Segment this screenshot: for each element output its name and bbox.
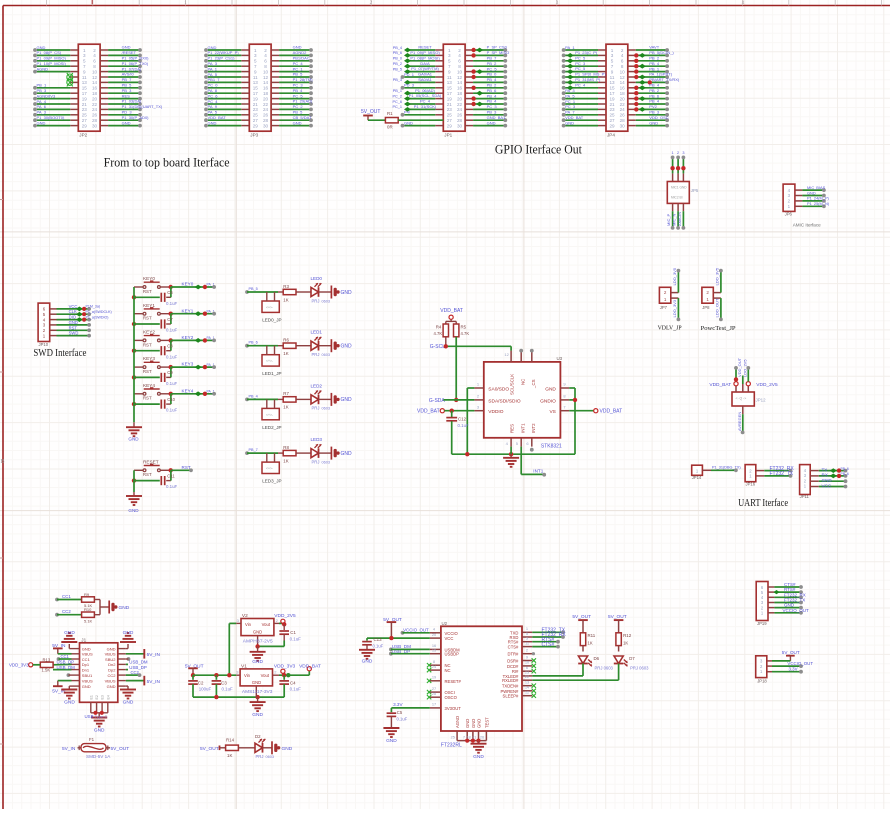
svg-text:DSR#: DSR#	[507, 659, 519, 664]
svg-text:11: 11	[447, 75, 452, 80]
svg-text:27: 27	[447, 118, 453, 123]
svg-text:P1_06(P_TX0): P1_06(P_TX0)	[122, 61, 149, 66]
svg-text:NC: NC	[445, 668, 451, 673]
svg-text:VDD_BAT: VDD_BAT	[565, 115, 584, 120]
svg-text:<+>-: <+>-	[266, 359, 273, 363]
svg-text:15: 15	[609, 86, 615, 91]
svg-text:PC_3: PC_3	[293, 83, 304, 88]
svg-text:JP10: JP10	[39, 342, 49, 347]
svg-text:GND: GND	[341, 451, 353, 457]
svg-text:PRJ: PRJ	[312, 459, 320, 464]
svg-text:7: 7	[611, 64, 614, 69]
svg-text:GND: GND	[253, 629, 262, 634]
svg-text:GND: GND	[64, 630, 75, 636]
svg-text:RX: RX	[822, 473, 828, 478]
svg-text:GND: GND	[122, 45, 131, 50]
svg-text:DCD#: DCD#	[507, 664, 519, 669]
svg-text:C2: C2	[198, 680, 204, 685]
svg-text:VDD_OUT: VDD_OUT	[737, 357, 742, 377]
svg-text:DIO: DIO	[69, 315, 77, 320]
svg-text:P1_08(P_MOSI): P1_08(P_MOSI)	[410, 55, 440, 60]
svg-text:GND: GND	[341, 290, 353, 296]
svg-text:KEY0: KEY0	[143, 276, 155, 281]
svg-text:RST: RST	[143, 369, 152, 374]
svg-text:1K: 1K	[227, 753, 232, 758]
svg-text:R13: R13	[43, 658, 51, 663]
svg-text:4.7K: 4.7K	[461, 331, 470, 336]
svg-text:1K: 1K	[283, 405, 288, 410]
svg-text:NC: NC	[521, 379, 526, 385]
svg-text:LED2: LED2	[311, 383, 323, 388]
svg-text:P1_09(P_MISO): P1_09(P_MISO)	[37, 56, 67, 61]
svg-text:C10: C10	[167, 397, 175, 402]
svg-text:5V_IN: 5V_IN	[147, 679, 161, 685]
svg-text:8: 8	[264, 64, 267, 69]
svg-text:JP2: JP2	[79, 133, 87, 138]
svg-text:5V_OUT: 5V_OUT	[572, 614, 591, 620]
svg-text:1.5K: 1.5K	[42, 668, 51, 673]
svg-text:SMD-5V 1A: SMD-5V 1A	[86, 754, 111, 759]
svg-text:R5: R5	[461, 324, 467, 329]
svg-text:R12: R12	[623, 633, 632, 638]
svg-text:PA_5: PA_5	[208, 72, 218, 77]
svg-text:P1_05(P_RX0): P1_05(P_RX0)	[122, 56, 150, 61]
svg-text:P1_24(M_P): P1_24(M_P)	[807, 196, 830, 201]
svg-text:PC_5: PC_5	[293, 93, 304, 98]
svg-text:PC_5: PC_5	[575, 55, 586, 60]
svg-text:RST: RST	[143, 289, 152, 294]
svg-text:3.3V: 3.3V	[393, 702, 403, 707]
svg-text:16: 16	[92, 86, 98, 91]
svg-text:5V_OUT: 5V_OUT	[361, 109, 380, 115]
svg-text:0.1uF: 0.1uF	[166, 381, 178, 386]
svg-text:PA_3: PA_3	[208, 61, 218, 66]
svg-text:PB_2: PB_2	[487, 83, 498, 88]
svg-text:E3: E3	[101, 695, 105, 699]
svg-text:PB_4: PB_4	[487, 99, 498, 104]
svg-text:PB_3: PB_3	[393, 78, 402, 82]
svg-text:VCC: VCC	[445, 636, 454, 641]
svg-text:PB_3: PB_3	[649, 110, 660, 115]
svg-text:INT2: INT2	[531, 423, 536, 433]
svg-text:0603: 0603	[322, 299, 330, 303]
svg-text:GND: GND	[341, 344, 353, 350]
svg-text:29: 29	[82, 123, 88, 128]
svg-text:5V_OUT: 5V_OUT	[111, 746, 130, 752]
svg-text:GND: GND	[122, 120, 131, 125]
svg-text:JP12: JP12	[756, 398, 767, 403]
svg-text:VCCIO: VCCIO	[445, 631, 459, 636]
svg-text:25: 25	[609, 113, 615, 118]
svg-text:CC2: CC2	[62, 609, 71, 614]
svg-text:C12: C12	[458, 417, 467, 422]
svg-text:25: 25	[447, 113, 453, 118]
svg-text:GND: GND	[94, 728, 105, 734]
svg-text:26: 26	[620, 113, 626, 118]
svg-text:VAVT: VAVT	[649, 45, 659, 50]
svg-text:PB_1: PB_1	[649, 66, 660, 71]
svg-text:RES: RES	[510, 424, 515, 433]
svg-text:R7: R7	[283, 391, 289, 396]
svg-text:15: 15	[432, 648, 436, 653]
svg-text:GND: GND	[473, 754, 484, 760]
svg-text:PA_3: PA_3	[565, 88, 575, 93]
svg-text:C3: C3	[221, 680, 227, 685]
svg-text:11: 11	[253, 75, 258, 80]
svg-text:VDD_OSC: VDD_OSC	[649, 115, 668, 120]
svg-text:R8: R8	[283, 445, 289, 450]
svg-text:9: 9	[254, 69, 257, 74]
svg-text:P1M_3a): P1M_3a)	[86, 305, 101, 309]
svg-text:VBUS: VBUS	[105, 678, 116, 683]
svg-text:F1: F1	[89, 737, 95, 742]
svg-text:1: 1	[83, 48, 86, 53]
svg-text:R3: R3	[283, 284, 289, 289]
svg-text:VDDIO: VDDIO	[488, 409, 503, 415]
svg-text:GND: GND	[128, 437, 139, 442]
svg-text:3V3OUT: 3V3OUT	[445, 706, 462, 711]
svg-text:JP3: JP3	[250, 133, 258, 138]
svg-text:VDD_2V5: VDD_2V5	[756, 382, 778, 388]
svg-text:P1_03(DA): P1_03(DA)	[122, 99, 142, 104]
svg-text:PRJ: PRJ	[312, 298, 320, 303]
svg-text:Dp2: Dp2	[108, 667, 116, 672]
svg-text:13: 13	[253, 80, 259, 85]
svg-text:C6: C6	[167, 290, 173, 295]
svg-text:FT232_TX: FT232_TX	[770, 471, 794, 477]
svg-text:20: 20	[92, 96, 98, 101]
svg-text:4: 4	[621, 53, 624, 58]
svg-text:AVS/I0: AVS/I0	[122, 72, 135, 77]
svg-text:PB_5: PB_5	[249, 287, 258, 291]
svg-text:15: 15	[253, 86, 259, 91]
svg-text:LED1_JP: LED1_JP	[262, 371, 281, 376]
svg-text:18: 18	[263, 91, 269, 96]
svg-text:E1: E1	[89, 695, 93, 699]
svg-text:PA_1: PA_1	[565, 45, 575, 50]
svg-text:19: 19	[253, 96, 259, 101]
svg-text:22: 22	[92, 102, 98, 107]
svg-text:GND: GND	[82, 684, 91, 689]
svg-text:17: 17	[447, 91, 453, 96]
svg-text:CC1: CC1	[62, 594, 71, 599]
svg-text:P4/: P4/	[404, 110, 411, 115]
svg-text:SBU1: SBU1	[82, 673, 93, 678]
svg-text:13: 13	[82, 80, 88, 85]
svg-text:G-SCL: G-SCL	[430, 344, 446, 350]
svg-text:VDD_BAT: VDD_BAT	[600, 409, 623, 415]
svg-text:2: 2	[370, 0, 373, 6]
svg-text:E4: E4	[106, 695, 110, 699]
svg-text:SLEEP#: SLEEP#	[503, 694, 520, 699]
svg-text:PRJ: PRJ	[256, 754, 264, 759]
svg-text:C5: C5	[397, 710, 403, 715]
svg-text:5V_OUT: 5V_OUT	[782, 650, 800, 655]
svg-text:V1: V1	[241, 663, 247, 669]
svg-text:28: 28	[432, 691, 436, 696]
svg-text:GND: GND	[208, 45, 217, 50]
svg-text:TEST: TEST	[484, 717, 489, 728]
svg-text:GND: GND	[37, 120, 46, 125]
svg-text:LED0: LED0	[311, 276, 323, 281]
svg-text:SWD Interface: SWD Interface	[33, 348, 86, 359]
svg-text:PB_6: PB_6	[393, 51, 402, 55]
svg-text:INT1: INT1	[521, 423, 526, 433]
svg-text:10: 10	[457, 69, 463, 74]
svg-text:/RESET: /RESET	[122, 50, 137, 55]
svg-text:GND: GND	[293, 45, 302, 50]
svg-text:PB_7: PB_7	[487, 56, 498, 61]
svg-text:7: 7	[83, 64, 86, 69]
svg-text:PB_4: PB_4	[293, 88, 304, 93]
svg-text:20: 20	[620, 96, 626, 101]
svg-text:CLK: CLK	[69, 309, 77, 314]
svg-text:2: 2	[458, 48, 461, 53]
svg-text:PC_4: PC_4	[420, 99, 431, 104]
svg-text:VCCIO_OUT: VCCIO_OUT	[783, 608, 810, 613]
svg-text:PB_6: PB_6	[649, 93, 660, 98]
svg-text:PB_5: PB_5	[122, 83, 133, 88]
svg-text:26: 26	[480, 735, 484, 740]
svg-text:23: 23	[253, 107, 259, 112]
svg-text:GNDIO: GNDIO	[540, 398, 556, 404]
svg-text:22: 22	[620, 102, 626, 107]
svg-text:12: 12	[457, 75, 463, 80]
svg-text:PB_7: PB_7	[249, 448, 258, 452]
svg-text:P1_08(P_CS): P1_08(P_CS)	[37, 50, 62, 55]
svg-text:PRJ 0603: PRJ 0603	[630, 666, 649, 671]
svg-text:PA_1: PA_1	[208, 66, 218, 71]
svg-text:9: 9	[83, 69, 86, 74]
svg-text:PB_5: PB_5	[293, 72, 304, 77]
svg-text:LDO_3V5: LDO_3V5	[714, 267, 719, 285]
svg-text:8: 8	[621, 64, 624, 69]
svg-text:PB_5(DCIN_): PB_5(DCIN_)	[649, 50, 674, 55]
svg-text:R4: R4	[436, 324, 442, 329]
svg-text:PB_4: PB_4	[649, 99, 660, 104]
svg-text:PB_2: PB_2	[649, 88, 660, 93]
svg-text:PC_3: PC_3	[575, 61, 586, 66]
svg-text:GND_BA1: GND_BA1	[487, 115, 506, 120]
svg-text:PB_3: PB_3	[37, 88, 48, 93]
svg-text:1: 1	[611, 48, 614, 53]
svg-text:10: 10	[263, 69, 269, 74]
svg-text:4: 4	[742, 0, 745, 6]
svg-text:P1_30(P_AD0): P1_30(P_AD0)	[122, 115, 150, 120]
svg-text:AGND: AGND	[37, 66, 49, 71]
svg-text:PB_0: PB_0	[393, 57, 402, 61]
svg-text:2: 2	[677, 151, 679, 155]
svg-text:<+>-: <+>-	[266, 467, 273, 471]
svg-text:0.1uF: 0.1uF	[458, 423, 470, 428]
svg-text:LED0_JP: LED0_JP	[262, 318, 281, 323]
svg-text:20: 20	[457, 96, 463, 101]
svg-text:KEY1: KEY1	[182, 308, 194, 313]
svg-text:9: 9	[611, 69, 614, 74]
svg-text:1: 1	[672, 151, 674, 155]
svg-text:R11: R11	[588, 633, 596, 638]
svg-text:CTS#: CTS#	[508, 645, 519, 650]
svg-text:P_SP_CS0: P_SP_CS0	[487, 45, 508, 50]
svg-text:9: 9	[526, 654, 528, 659]
svg-text:0603: 0603	[322, 353, 330, 357]
svg-text:21: 21	[82, 102, 88, 107]
svg-text:U2: U2	[442, 621, 448, 626]
svg-text:1K: 1K	[588, 641, 593, 646]
svg-text:RES: RES	[122, 93, 131, 98]
svg-text:PB_2: PB_2	[487, 61, 498, 66]
svg-text:GND: GND	[487, 120, 496, 125]
svg-text:30: 30	[263, 123, 269, 128]
svg-text:0.1uF: 0.1uF	[166, 484, 178, 489]
svg-text:29: 29	[447, 123, 453, 128]
svg-text:PC_1: PC_1	[393, 105, 403, 109]
svg-text:R9: R9	[84, 592, 90, 597]
svg-text:P1_31(MS_P): P1_31(MS_P)	[575, 77, 601, 82]
svg-text:Vout: Vout	[261, 673, 270, 678]
svg-text:TX: TX	[822, 467, 828, 472]
svg-text:From to top board Iterface: From to top board Iterface	[104, 155, 230, 169]
svg-text:0.1uF: 0.1uF	[397, 716, 408, 721]
svg-text:VCCIO_OUT: VCCIO_OUT	[403, 628, 429, 633]
svg-text:11: 11	[82, 75, 87, 80]
svg-text:4: 4	[458, 53, 461, 58]
svg-text:RXLED#: RXLED#	[502, 678, 519, 683]
svg-text:C8: C8	[167, 344, 173, 349]
svg-text:AVREGEN: AVREGEN	[737, 412, 742, 431]
svg-text:12: 12	[92, 75, 98, 80]
svg-text:PA_5: PA_5	[208, 110, 218, 115]
svg-text:D2: D2	[255, 734, 261, 739]
svg-text:18: 18	[457, 91, 463, 96]
svg-text:USBDP: USBDP	[445, 652, 460, 657]
svg-text:GND: GND	[69, 320, 78, 325]
svg-text:PowcTest_JP: PowcTest_JP	[701, 325, 736, 332]
svg-text:RST: RST	[143, 342, 152, 347]
svg-text:PB_3: PB_3	[122, 88, 133, 93]
svg-text:0603: 0603	[322, 407, 330, 411]
svg-text:GND: GND	[807, 190, 816, 195]
svg-text:PB_5: PB_5	[293, 110, 304, 115]
svg-text:28: 28	[620, 118, 626, 123]
svg-text:P1_31(DB)(UART_TX): P1_31(DB)(UART_TX)	[122, 104, 163, 109]
svg-text:D7: D7	[629, 656, 635, 661]
svg-text:JP11: JP11	[800, 494, 810, 499]
svg-text:18: 18	[92, 91, 98, 96]
svg-text:PB_7: PB_7	[122, 77, 133, 82]
svg-text:JP18: JP18	[757, 679, 767, 684]
svg-text:LED2_JP: LED2_JP	[262, 425, 281, 430]
svg-text:13: 13	[609, 80, 615, 85]
svg-text:4: 4	[93, 53, 96, 58]
svg-text:D6: D6	[594, 656, 600, 661]
svg-text:17: 17	[432, 702, 436, 707]
svg-text:GA0/A1: GA0/A1	[418, 72, 433, 77]
svg-text:RST: RST	[143, 396, 152, 401]
svg-text:5V_OUT: 5V_OUT	[608, 614, 627, 620]
svg-text:Vin: Vin	[244, 673, 251, 678]
svg-text:4.7K: 4.7K	[434, 331, 443, 336]
svg-text:5: 5	[83, 59, 86, 64]
svg-text:CC1: CC1	[82, 657, 91, 662]
svg-text:27: 27	[253, 118, 259, 123]
svg-text:PC_2: PC_2	[393, 94, 403, 98]
svg-text:19: 19	[432, 675, 436, 680]
svg-text:P1_07(DA): P1_07(DA)	[122, 66, 142, 71]
svg-text:KEY3: KEY3	[182, 362, 194, 367]
svg-text:5: 5	[254, 59, 257, 64]
svg-text:C9: C9	[167, 370, 173, 375]
svg-text:LDO_3V3: LDO_3V3	[672, 299, 677, 317]
svg-text:R1: R1	[387, 111, 393, 116]
svg-text:Vout: Vout	[262, 622, 271, 627]
svg-text:13: 13	[447, 80, 453, 85]
svg-text:VBUS: VBUS	[82, 678, 93, 683]
svg-text:PB(ART_TX/RX): PB(ART_TX/RX)	[649, 77, 680, 82]
svg-text:PV2: PV2	[649, 104, 657, 109]
svg-text:GND: GND	[362, 659, 373, 665]
svg-text:PRJ: PRJ	[312, 352, 320, 357]
svg-text:P1_23(C_P): P1_23(C_P)	[575, 50, 598, 55]
svg-text:1: 1	[448, 48, 451, 53]
svg-text:28: 28	[263, 118, 269, 123]
svg-text:8: 8	[458, 64, 461, 69]
svg-text:AMS1117-3V3: AMS1117-3V3	[242, 689, 273, 695]
svg-text:PC_1: PC_1	[293, 66, 304, 71]
svg-text:PA_5: PA_5	[565, 93, 575, 98]
svg-text:B: B	[1, 459, 5, 465]
svg-text:0603: 0603	[322, 460, 330, 464]
svg-text:VDD_BAT: VDD_BAT	[299, 663, 321, 669]
svg-text:VCC: VCC	[69, 304, 78, 309]
svg-text:CB_5/DAT: CB_5/DAT	[293, 115, 312, 120]
svg-text:USB_DM: USB_DM	[129, 660, 148, 665]
svg-text:20: 20	[263, 96, 269, 101]
svg-text:P1_22(WKUP_P): P1_22(WKUP_P)	[208, 50, 240, 55]
svg-text:26: 26	[92, 113, 98, 118]
svg-text:12: 12	[263, 75, 269, 80]
svg-text:MIC_N: MIC_N	[672, 213, 677, 226]
svg-text:CC1: CC1	[61, 654, 70, 659]
svg-text:25: 25	[253, 113, 259, 118]
svg-text:14: 14	[263, 80, 269, 85]
svg-text:RESET#: RESET#	[445, 679, 462, 684]
svg-text:P1_10(P_MOSI): P1_10(P_MOSI)	[37, 61, 67, 66]
svg-text:PC_5: PC_5	[575, 66, 586, 71]
svg-text:10: 10	[620, 69, 626, 74]
svg-text:PA_6: PA_6	[37, 104, 47, 109]
svg-text:PB_6: PB_6	[841, 467, 849, 471]
svg-text:30: 30	[457, 123, 463, 128]
svg-text:PC_4: PC_4	[293, 61, 304, 66]
svg-text:PB1_7: PB1_7	[208, 77, 221, 82]
svg-text:GND: GND	[386, 738, 397, 744]
svg-text:22: 22	[457, 102, 463, 107]
svg-text:22: 22	[525, 674, 529, 679]
svg-text:PC_4: PC_4	[208, 99, 219, 104]
svg-text:GND: GND	[107, 684, 116, 689]
svg-text:6: 6	[264, 59, 267, 64]
svg-text:R6: R6	[283, 338, 289, 343]
svg-text:GND: GND	[123, 630, 134, 636]
svg-text:JP1: JP1	[444, 133, 452, 138]
svg-text:RESET: RESET	[418, 45, 432, 50]
svg-text:USB_DP: USB_DP	[57, 660, 75, 665]
svg-text:23: 23	[447, 107, 453, 112]
svg-text:PC_2: PC_2	[293, 104, 304, 109]
svg-text:PB_6: PB_6	[487, 88, 498, 93]
svg-text:11: 11	[525, 640, 529, 645]
